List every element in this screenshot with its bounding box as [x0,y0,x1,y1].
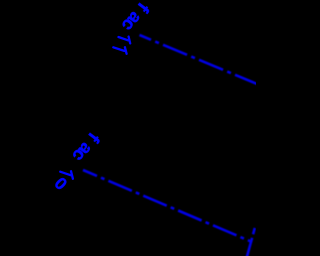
facility line fac 11 [140,35,261,85]
facility line fac 10 [83,170,251,242]
boundary line vertical [247,228,255,256]
label fac 11 [113,0,153,54]
label fac 10 [51,129,104,194]
